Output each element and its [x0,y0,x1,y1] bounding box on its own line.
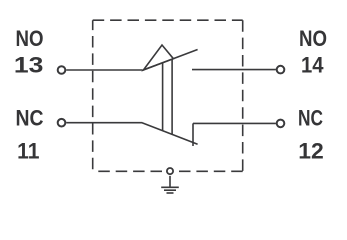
terminal 14 circle [277,66,285,74]
svg-text:12: 12 [298,139,324,164]
terminal 11 circle [58,119,66,127]
svg-text:NO: NO [16,26,44,51]
mechanical link line right [171,59,173,134]
NO contact moving blade [142,50,198,71]
relay enclosure dashed border bottom left segment [98,170,165,172]
forced-guidance triangle marker on NO blade [144,45,174,70]
wire NC fixed contact to terminal 12 [193,122,276,124]
ground symbol bar 1 [161,186,179,188]
ground symbol bar 3 [167,192,174,194]
relay enclosure dashed border left [92,20,94,169]
terminal 12 circle [277,120,285,128]
ground stem wire [169,176,171,187]
svg-text:NC: NC [16,106,44,131]
ground terminal circle [167,168,173,174]
svg-text:11: 11 [17,139,39,164]
relay enclosure dashed border top [93,19,243,21]
svg-text:14: 14 [301,52,324,77]
relay enclosure dashed border right [242,20,244,171]
wire NO fixed contact to terminal 14 [192,69,276,71]
relay enclosure dashed border bottom right segment [174,170,242,172]
terminal 13 circle [58,66,66,74]
mechanical link line left [162,63,164,131]
wire terminal 13 to NO pivot [66,69,142,71]
ground symbol bar 2 [164,189,176,191]
svg-text:13: 13 [14,52,44,77]
wire terminal 11 to NC pivot [66,122,142,124]
svg-text:NC: NC [298,106,323,131]
svg-text:NO: NO [299,26,327,51]
NC contact moving blade [142,123,198,145]
NC fixed contact stub [192,123,194,146]
